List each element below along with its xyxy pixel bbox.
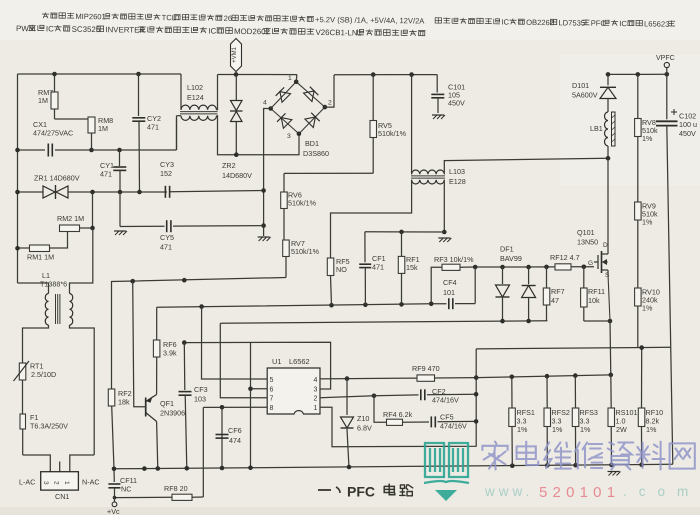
node ZR2 bottom <box>234 152 239 157</box>
node pin2 <box>320 396 374 398</box>
svg-text:RM2 1M: RM2 1M <box>57 214 84 223</box>
node bus RFS1 <box>510 463 515 468</box>
svg-text:ZR1 14D680V: ZR1 14D680V <box>34 174 80 183</box>
svg-text:1%: 1% <box>580 425 591 434</box>
node CF1 bottom <box>363 303 368 308</box>
svg-text:CN1: CN1 <box>55 492 69 501</box>
wire CF1/RF1 top line <box>365 231 444 233</box>
svg-text:2: 2 <box>53 481 60 485</box>
svg-text:LB1: LB1 <box>590 124 603 133</box>
ground at BD1 pin4 <box>258 236 270 238</box>
node DF1 right top <box>526 265 531 270</box>
svg-text:4: 4 <box>314 377 318 384</box>
node CF5 right <box>474 419 479 424</box>
capacitor CF5 <box>431 413 476 431</box>
svg-text:6: 6 <box>270 386 274 393</box>
svg-text:+5.2V (SB) /1A, +5V/4A, 12V/2A: +5.2V (SB) /1A, +5V/4A, 12V/2A <box>315 15 425 25</box>
watermark book icon <box>424 443 469 501</box>
svg-text:NC: NC <box>121 485 131 494</box>
wire ground bus <box>114 464 673 469</box>
resistor RF4 <box>374 396 429 426</box>
svg-text:RF8 20: RF8 20 <box>164 484 188 493</box>
svg-text:3.9k: 3.9k <box>163 349 177 358</box>
svg-text:8: 8 <box>270 405 274 412</box>
svg-text:S: S <box>605 272 610 279</box>
svg-text:4: 4 <box>263 100 267 107</box>
node pin6 <box>248 387 253 392</box>
svg-text:RF12 4.7: RF12 4.7 <box>550 253 580 262</box>
wire drain column <box>607 158 609 250</box>
svg-text:Z10: Z10 <box>357 414 369 423</box>
wire zcd line (342) <box>184 342 330 389</box>
svg-text:10k: 10k <box>588 296 600 305</box>
node bus RS101 <box>609 463 614 468</box>
svg-text:474/16V: 474/16V <box>432 396 459 405</box>
svg-text:2: 2 <box>328 100 332 107</box>
svg-text:1%: 1% <box>552 425 563 434</box>
wire source column <box>608 274 610 321</box>
resistor RF9 <box>412 364 476 381</box>
node zcd/CF3 col <box>182 340 187 345</box>
node RM2 col on ZR1 bus <box>90 190 95 195</box>
resistor RM1 <box>18 245 55 262</box>
node CY2 top junction <box>136 72 141 77</box>
svg-text:CY3: CY3 <box>160 160 174 169</box>
wire pin8 left col to RF8 <box>202 407 204 497</box>
resistor RV7 <box>283 239 320 278</box>
svg-text:ZR2: ZR2 <box>222 161 236 170</box>
svg-text:E124: E124 <box>187 93 204 102</box>
node RF3/CF4 left <box>429 302 434 307</box>
svg-text:1M: 1M <box>98 124 108 133</box>
ground below C101 <box>432 114 444 116</box>
node L103 riser top <box>409 72 414 77</box>
svg-text:.com: .com <box>623 484 700 499</box>
wire pin1 net <box>320 349 476 447</box>
svg-text:474: 474 <box>229 436 241 445</box>
svg-text:510k/1%: 510k/1% <box>291 247 320 256</box>
node bus Z10 <box>347 465 352 470</box>
wire feedback loop 348 <box>476 347 670 349</box>
node DF1 left top <box>500 265 505 270</box>
node DF1a bottom <box>500 319 505 324</box>
svg-text:G: G <box>588 260 593 267</box>
terminal VPFC <box>656 55 675 74</box>
svg-text:474/16V: 474/16V <box>440 422 467 431</box>
svg-text:RF7: RF7 <box>551 287 565 296</box>
resistor RS101 <box>608 375 637 465</box>
svg-text:474/275VAC: 474/275VAC <box>33 129 73 138</box>
svg-text:26: 26 <box>224 14 233 23</box>
wire pin5 net <box>202 307 268 379</box>
svg-text:1%: 1% <box>642 134 653 143</box>
wire BD1 pin2 riser to rail <box>325 75 334 107</box>
node RF7 top <box>544 265 549 270</box>
svg-text:RF9 470: RF9 470 <box>412 364 440 373</box>
capacitor CY1 <box>100 150 126 192</box>
svg-text:1M: 1M <box>38 96 48 105</box>
svg-text:103: 103 <box>194 395 206 404</box>
svg-text:+Vc: +Vc <box>107 507 120 515</box>
wire CX1 bus to L102 <box>92 149 177 151</box>
node L103 gnd <box>442 230 447 235</box>
wire L103 bottom winding left to RF5 <box>331 180 412 258</box>
resistor RM8 <box>88 116 113 150</box>
resistor RV8 <box>635 74 658 202</box>
node RFS3 top <box>573 373 578 378</box>
svg-text:PFC: PFC <box>347 484 375 500</box>
svg-text:CF4: CF4 <box>443 278 457 287</box>
wire pin6 column <box>250 342 252 468</box>
node RFS1 top <box>510 375 515 380</box>
svg-text:7: 7 <box>270 395 274 402</box>
svg-text:T6.3A/250V: T6.3A/250V <box>30 422 68 431</box>
svg-text:510k/1%: 510k/1% <box>288 199 317 208</box>
capacitor C101 <box>431 75 465 113</box>
capacitor CF6 <box>216 426 242 445</box>
svg-text:RF4 6.2k: RF4 6.2k <box>383 410 413 419</box>
svg-text:VPFC: VPFC <box>656 55 675 62</box>
node ZR2 top <box>234 72 239 77</box>
svg-text:47: 47 <box>551 296 559 305</box>
resistor RFS1 <box>509 377 535 466</box>
svg-text:471: 471 <box>372 263 384 272</box>
inductor LB1 <box>590 112 615 158</box>
svg-text:101: 101 <box>443 288 455 297</box>
svg-text:CF6: CF6 <box>228 426 242 435</box>
resistor RFS3 <box>572 376 598 466</box>
svg-text:U1: U1 <box>272 357 281 366</box>
capacitor CF4 <box>431 267 475 309</box>
node bus RF2 <box>112 467 117 472</box>
svg-text:450V: 450V <box>679 129 696 138</box>
svg-text:1%: 1% <box>642 304 653 313</box>
zener Z10 <box>341 379 372 468</box>
svg-text:LD7535: LD7535 <box>558 18 585 27</box>
node RF8/+Vc <box>113 496 117 500</box>
wire pin8 to gnd bus <box>221 407 223 468</box>
resistor RM7 <box>38 74 58 119</box>
svg-text:CF3: CF3 <box>194 385 208 394</box>
wire pin7 net riser <box>220 323 267 398</box>
node CF3 col top <box>182 278 187 283</box>
node pin4/CY5 <box>261 223 266 228</box>
thermistor RT1 <box>14 361 57 414</box>
svg-text:SC3525: SC3525 <box>72 25 101 34</box>
fuse F1 <box>20 413 68 455</box>
wire pin4/sense line <box>320 377 417 380</box>
connector CN1 <box>19 455 100 501</box>
resistor RF11 <box>581 267 605 321</box>
svg-text:QF1: QF1 <box>160 399 174 408</box>
resistor RM2 <box>50 192 93 248</box>
ground L103 <box>438 237 450 239</box>
svg-text:DF1: DF1 <box>500 245 514 254</box>
svg-text:2.5/10D: 2.5/10D <box>31 370 56 379</box>
node RS101 top <box>609 373 614 378</box>
svg-text:RF11: RF11 <box>588 287 605 296</box>
resistor RF10 <box>638 348 663 465</box>
resistor RF5 <box>327 257 349 305</box>
capacitor CF1 <box>359 232 385 305</box>
svg-text:V26CB1-LN1: V26CB1-LN1 <box>315 28 362 38</box>
capacitor CX1 <box>18 120 92 157</box>
node pin4 Z10 <box>345 376 350 381</box>
node bus QF1 <box>156 466 161 471</box>
svg-text:471: 471 <box>147 123 159 132</box>
diode DF1b <box>522 267 536 321</box>
svg-text:D3S860: D3S860 <box>303 149 329 158</box>
svg-text:2N3906: 2N3906 <box>160 409 185 418</box>
node 348/RV10 <box>639 345 644 350</box>
svg-text:471: 471 <box>100 170 112 179</box>
svg-text:IC: IC <box>501 18 509 27</box>
wire top rail to C101 <box>334 74 437 76</box>
svg-text:1: 1 <box>63 481 70 485</box>
transformer L1 <box>18 228 95 455</box>
wire sense line to RS101 <box>476 375 611 378</box>
svg-text:Q101: Q101 <box>577 228 595 237</box>
node RF1 bottom <box>399 302 404 307</box>
node RF9 right col <box>474 375 479 380</box>
title text line 1 <box>42 12 675 29</box>
svg-text:OB2262: OB2262 <box>526 18 554 27</box>
varistor ZR1 <box>18 174 168 200</box>
svg-text:3: 3 <box>287 133 291 140</box>
resistor RF6 <box>153 307 177 394</box>
svg-text:3: 3 <box>42 481 49 485</box>
node RF1 top <box>399 230 404 235</box>
capacitor CF2 <box>374 387 476 405</box>
node RV5 top <box>371 72 376 77</box>
svg-text:100 u: 100 u <box>679 120 697 129</box>
wire left rail <box>17 74 19 283</box>
svg-text:5: 5 <box>270 377 274 384</box>
watermark hanzi text <box>482 442 507 470</box>
node RV8 col top <box>636 72 641 77</box>
resistor RF8 <box>115 484 204 500</box>
resistor RF3 <box>431 255 475 304</box>
resistor RV5 <box>370 75 407 174</box>
svg-text:2: 2 <box>314 395 318 402</box>
node RM2 right <box>90 226 95 231</box>
wire pin8 net <box>203 406 267 408</box>
node pin4/ZR1bus <box>261 188 266 193</box>
node pin5 riser <box>199 304 204 309</box>
node RF3 right <box>473 265 478 270</box>
svg-text:RF3 10k/1%: RF3 10k/1% <box>434 255 474 264</box>
svg-text:L-AC: L-AC <box>19 478 35 487</box>
svg-text:152: 152 <box>160 169 172 178</box>
node base col top <box>130 279 135 284</box>
node bus RFS2 <box>545 463 550 468</box>
node bus RF8 <box>142 466 147 471</box>
node gate RF11 top <box>582 265 587 270</box>
svg-text:BAV99: BAV99 <box>500 254 522 263</box>
svg-text:CY5: CY5 <box>160 233 174 242</box>
node VPFC col <box>665 72 670 77</box>
svg-text:510k/1%: 510k/1% <box>378 129 407 138</box>
svg-text:CF5: CF5 <box>440 413 454 422</box>
svg-text:1: 1 <box>314 405 318 412</box>
diode DF1a <box>496 245 522 322</box>
node DF1b bottom <box>526 319 531 324</box>
node bus pin6 <box>248 466 253 471</box>
svg-text:5A600V: 5A600V <box>572 91 598 100</box>
capacitor CY2 <box>132 74 161 192</box>
svg-text:+VM1: +VM1 <box>232 46 238 63</box>
resistor RV9 <box>635 202 658 289</box>
svg-text:RM1 1M: RM1 1M <box>27 253 54 262</box>
inductor L103 <box>411 75 466 186</box>
node CY1 top <box>117 148 122 153</box>
wire RV5 to RV6 <box>284 172 373 174</box>
node RF5 bottom <box>329 303 334 308</box>
svg-text:D101: D101 <box>572 81 589 90</box>
node bus pin8 <box>220 466 225 471</box>
svg-text:IC: IC <box>46 24 54 33</box>
svg-text:1%: 1% <box>517 425 528 434</box>
node RM8 bottom <box>89 148 94 153</box>
capacitor CY5 <box>120 192 264 252</box>
resistor RFS2 <box>544 376 570 465</box>
svg-text:N-AC: N-AC <box>82 478 100 487</box>
node CY1 cross <box>118 190 123 195</box>
transistor Q101 MOSFET <box>577 228 610 279</box>
svg-text:D: D <box>603 242 608 249</box>
node CY2 bottom <box>137 190 142 195</box>
svg-text:L102: L102 <box>187 83 203 92</box>
resistor RF12 <box>475 253 594 270</box>
svg-text:NO: NO <box>336 265 347 274</box>
node CF2 right <box>474 392 479 397</box>
svg-text:1%: 1% <box>646 425 657 434</box>
node ZR1 left <box>15 190 20 195</box>
node bus RFS3 <box>573 463 578 468</box>
svg-text:1: 1 <box>288 75 292 82</box>
svg-text:520101: 520101 <box>539 484 620 501</box>
svg-text:3: 3 <box>314 386 318 393</box>
bridge rectifier BD1 <box>263 75 332 158</box>
fuse symbol VA+ <box>231 39 242 75</box>
wire BD1 pin1 riser <box>295 75 298 82</box>
node bus RF10 <box>639 462 644 467</box>
svg-text:L6562: L6562 <box>289 357 310 366</box>
resistor RF7 <box>543 267 564 321</box>
svg-text:13N50: 13N50 <box>577 238 598 247</box>
transistor QF1 <box>133 281 185 421</box>
wire L103 top right to LB1 node <box>444 158 608 174</box>
node top-left RM7 junction <box>52 72 57 77</box>
title text line 2 <box>16 24 425 38</box>
ground below CY1 <box>114 230 126 232</box>
capacitor CY3 (series in bus) <box>160 160 264 198</box>
svg-text:BD1: BD1 <box>305 139 319 148</box>
capacitor CF3 <box>179 343 208 469</box>
node RM1 left <box>15 246 20 251</box>
wire RM7 to RM8 step <box>55 118 92 120</box>
svg-text:1%: 1% <box>642 218 653 227</box>
svg-text:www.: www. <box>484 484 533 499</box>
wire RV7 bottom sense line <box>112 278 287 390</box>
capacitor C102 electrolytic <box>656 74 697 464</box>
svg-text:471: 471 <box>160 243 172 252</box>
node D101 top <box>606 72 611 77</box>
wire VPFC rail <box>608 73 667 75</box>
wire mult bus <box>157 304 432 307</box>
resistor RV10 <box>635 288 660 348</box>
diode D101 <box>572 74 616 112</box>
ground main <box>608 471 620 473</box>
svg-text:6.8V: 6.8V <box>357 424 372 433</box>
transformer L102 <box>177 74 218 150</box>
svg-text:450V: 450V <box>448 99 465 108</box>
wire L102 to top rail right <box>217 75 218 110</box>
svg-text:14D680V: 14D680V <box>222 171 252 180</box>
svg-text:E128: E128 <box>449 177 466 186</box>
svg-text:L65623: L65623 <box>644 19 669 28</box>
svg-text:MIP2601: MIP2601 <box>75 12 106 21</box>
node RFS2 top <box>545 374 550 379</box>
node bus CF3 <box>185 466 190 471</box>
node LB1 bottom <box>606 156 611 161</box>
svg-text:T1388*6: T1388*6 <box>40 280 67 289</box>
wire BD1 pin4 column to ground <box>264 109 271 237</box>
node pin8 branch <box>220 405 225 410</box>
svg-text:18k: 18k <box>118 398 130 407</box>
svg-text:PFC: PFC <box>591 19 607 28</box>
resistor RV6 <box>281 173 317 240</box>
resistor RF2 <box>108 389 131 469</box>
svg-text:L103: L103 <box>449 167 465 176</box>
node CX1 bus left <box>15 148 20 153</box>
svg-text:2W: 2W <box>616 425 627 434</box>
wire L103 bottom winding right to ground node <box>443 180 445 232</box>
IC U1 L6562 <box>267 357 320 414</box>
caption PFC circuit <box>318 484 413 500</box>
wire AC line L102 bottom to BD1 pin3 <box>217 116 300 155</box>
wire top bus left <box>18 73 182 75</box>
varistor ZR2 <box>222 75 252 181</box>
wire RF11 bottom to source <box>584 320 610 322</box>
svg-text:IC: IC <box>619 19 627 28</box>
resistor RF1 <box>398 232 419 305</box>
wire CS line (pin7 net) <box>220 321 547 323</box>
capacitor CF11 + Vc terminal <box>107 469 137 515</box>
svg-text:15k: 15k <box>406 263 418 272</box>
wire QF1 emitter down <box>157 422 158 469</box>
svg-text:IC: IC <box>208 27 216 36</box>
